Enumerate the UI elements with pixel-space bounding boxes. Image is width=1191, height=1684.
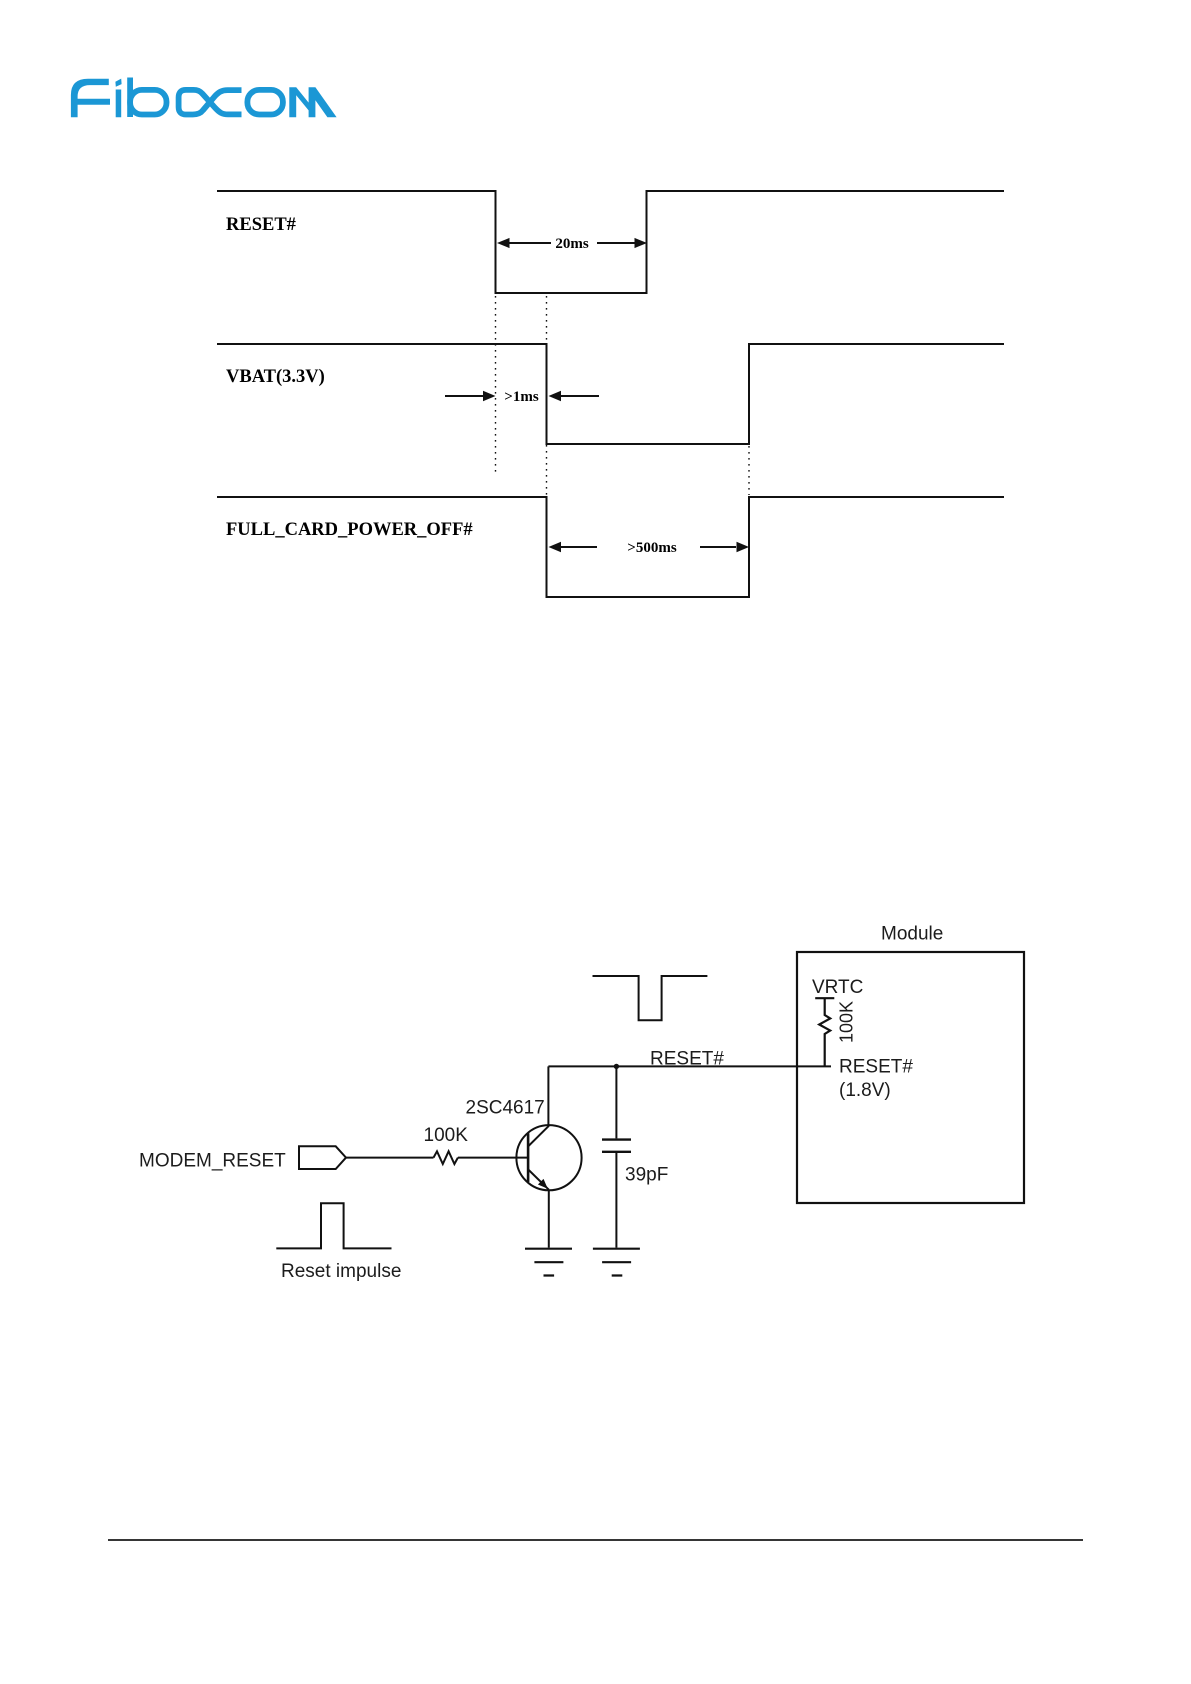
reset impulse glyph <box>276 1203 391 1248</box>
capacitor C1 bottom wire <box>615 1153 617 1248</box>
arrow 20ms left head <box>497 238 510 248</box>
arrow 1ms right head <box>549 391 562 401</box>
wire emitter to ground <box>548 1190 550 1248</box>
svg-text:RESET#: RESET# <box>226 215 296 235</box>
wire resistor to base <box>458 1157 528 1159</box>
svg-text:MODEM_RESET: MODEM_RESET <box>139 1151 286 1172</box>
svg-text:VRTC: VRTC <box>812 977 863 998</box>
module box U1 <box>797 952 1024 1203</box>
dotted guide at VBAT fall lower <box>546 445 548 495</box>
arrow 20ms right shaft <box>597 242 635 244</box>
svg-text:RESET#: RESET# <box>839 1057 913 1078</box>
transistor Q1 base bar <box>527 1133 530 1182</box>
signal FULL_CARD_POWER_OFF# waveform <box>217 497 1004 597</box>
signal RESET# waveform <box>217 191 1004 293</box>
wire RESET# net <box>548 1065 831 1067</box>
logo letter F <box>71 79 110 118</box>
arrow 500ms left head <box>549 542 562 552</box>
arrow 20ms right head <box>635 238 648 248</box>
capacitor C1 top wire <box>615 1066 617 1138</box>
negative pulse glyph <box>593 976 708 1020</box>
resistor R2 100K series <box>434 1151 458 1164</box>
svg-text:VBAT(3.3V): VBAT(3.3V) <box>226 367 325 387</box>
ground under transistor <box>525 1249 572 1276</box>
transistor Q1 emitter arrow <box>538 1179 548 1189</box>
svg-text:Reset impulse: Reset impulse <box>281 1261 401 1282</box>
svg-text:>500ms: >500ms <box>627 540 677 556</box>
input port tag <box>299 1146 346 1169</box>
svg-text:100K: 100K <box>424 1125 469 1146</box>
svg-text:(1.8V): (1.8V) <box>839 1080 891 1101</box>
transistor Q1 collector stroke <box>528 1126 549 1147</box>
capacitor C1 plates <box>602 1140 631 1152</box>
dotted guide at VBAT fall upper <box>546 296 548 342</box>
arrow 20ms left shaft <box>510 242 552 244</box>
arrow 500ms right head <box>737 542 750 552</box>
transistor Q1 emitter stroke <box>528 1169 549 1189</box>
svg-text:Module: Module <box>881 924 943 945</box>
logo letter b <box>130 78 166 118</box>
wire tag to resistor <box>346 1157 434 1159</box>
dotted guide at RESET# fall <box>495 296 497 473</box>
svg-text:2SC4617: 2SC4617 <box>466 1098 545 1119</box>
logo letter o <box>247 90 283 115</box>
logo oc infinity ligature <box>179 90 242 115</box>
wire collector to net <box>547 1066 549 1125</box>
logo letter i <box>115 79 121 118</box>
svg-text:>1ms: >1ms <box>504 389 539 405</box>
arrow 500ms right shaft <box>700 546 736 548</box>
resistor R1 100K pull-up <box>815 998 834 1066</box>
svg-text:100K: 100K <box>837 1001 857 1043</box>
svg-text:20ms: 20ms <box>555 236 588 252</box>
arrow 500ms left shaft <box>561 546 597 548</box>
signal VBAT waveform <box>217 344 1004 444</box>
arrow 1ms left shaft <box>445 395 483 397</box>
arrow 1ms left head <box>483 391 496 401</box>
ground under capacitor <box>593 1249 640 1276</box>
svg-text:FULL_CARD_POWER_OFF#: FULL_CARD_POWER_OFF# <box>226 520 473 540</box>
footer rule <box>108 1539 1083 1541</box>
arrow 1ms right shaft <box>561 395 599 397</box>
dotted guide at VBAT rise <box>748 446 750 495</box>
svg-text:RESET#: RESET# <box>650 1049 724 1070</box>
svg-text:39pF: 39pF <box>625 1165 668 1186</box>
node junction dot <box>614 1064 619 1069</box>
logo letter m <box>289 87 336 117</box>
transistor Q1 circle <box>516 1125 581 1190</box>
